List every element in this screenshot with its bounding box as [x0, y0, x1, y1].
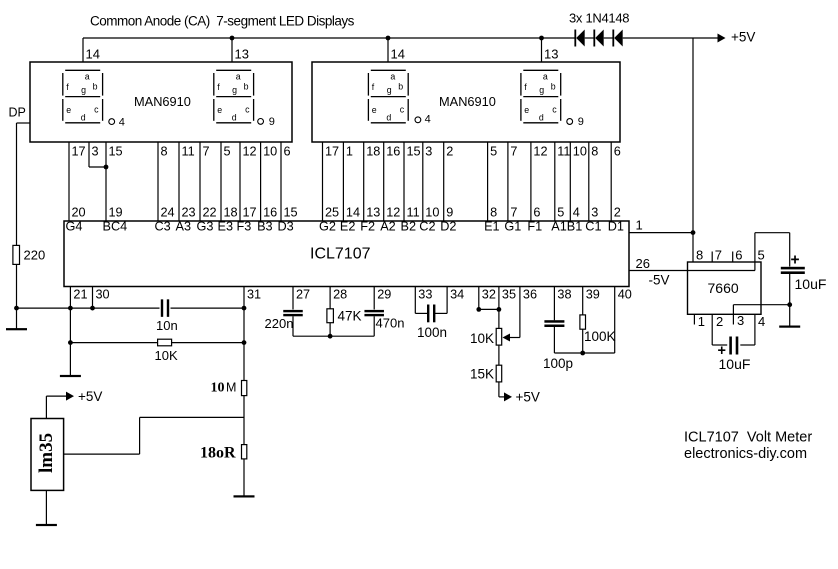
svg-text:2: 2 — [614, 206, 621, 220]
svg-text:35: 35 — [502, 288, 516, 302]
svg-text:5: 5 — [490, 144, 497, 158]
svg-text:electronics-diy.com: electronics-diy.com — [684, 446, 807, 462]
svg-text:+5V: +5V — [516, 390, 540, 405]
svg-text:4: 4 — [425, 113, 431, 125]
svg-text:7: 7 — [510, 144, 517, 158]
svg-text:c: c — [94, 105, 99, 115]
svg-text:26: 26 — [636, 256, 650, 271]
svg-text:14: 14 — [391, 47, 405, 62]
svg-text:27: 27 — [296, 288, 310, 302]
svg-text:10n: 10n — [156, 318, 178, 333]
svg-text:8: 8 — [591, 144, 598, 158]
svg-text:34: 34 — [450, 288, 464, 302]
svg-text:12: 12 — [533, 144, 547, 158]
svg-text:d: d — [232, 112, 237, 122]
svg-text:g: g — [539, 85, 544, 95]
svg-text:100K: 100K — [584, 329, 616, 344]
svg-text:g: g — [387, 85, 392, 95]
svg-text:10: 10 — [425, 206, 439, 220]
svg-text:220n: 220n — [265, 316, 294, 331]
svg-text:MAN6910: MAN6910 — [134, 94, 191, 109]
svg-text:36: 36 — [523, 288, 537, 302]
svg-text:d: d — [386, 112, 391, 122]
svg-text:9: 9 — [578, 116, 584, 128]
svg-text:15: 15 — [407, 144, 421, 158]
svg-text:10K: 10K — [155, 348, 178, 363]
svg-text:15: 15 — [109, 144, 123, 158]
svg-text:33: 33 — [418, 288, 432, 302]
svg-text:d: d — [81, 112, 86, 122]
svg-text:17: 17 — [243, 206, 257, 220]
svg-text:+: + — [791, 252, 800, 269]
svg-text:10uF: 10uF — [719, 356, 751, 372]
svg-text:10uF: 10uF — [795, 276, 827, 292]
svg-text:c: c — [245, 105, 250, 115]
svg-text:100n: 100n — [417, 325, 447, 340]
svg-text:13: 13 — [235, 47, 249, 62]
svg-text:16: 16 — [263, 206, 277, 220]
svg-text:b: b — [398, 82, 403, 92]
svg-text:11: 11 — [557, 144, 570, 158]
svg-text:8: 8 — [490, 206, 497, 220]
svg-text:13: 13 — [366, 206, 380, 220]
svg-text:g: g — [81, 85, 86, 95]
svg-text:a: a — [85, 71, 90, 81]
svg-text:7: 7 — [510, 206, 517, 220]
svg-text:14: 14 — [346, 206, 360, 220]
svg-text:+5V: +5V — [731, 30, 755, 45]
svg-text:12: 12 — [386, 206, 400, 220]
svg-text:b: b — [244, 82, 249, 92]
svg-text:6: 6 — [284, 144, 291, 158]
svg-text:18: 18 — [366, 144, 380, 158]
svg-text:4: 4 — [573, 206, 580, 220]
svg-text:9: 9 — [269, 116, 275, 128]
svg-text:7: 7 — [203, 144, 210, 158]
svg-text:3x 1N4148: 3x 1N4148 — [569, 11, 629, 26]
svg-text:2: 2 — [716, 314, 723, 329]
svg-text:4: 4 — [758, 314, 765, 329]
svg-text:8: 8 — [161, 144, 168, 158]
svg-text:9: 9 — [446, 206, 453, 220]
svg-text:c: c — [552, 105, 557, 115]
svg-text:32: 32 — [482, 288, 496, 302]
svg-text:10K: 10K — [470, 331, 494, 346]
svg-text:18oR: 18oR — [200, 445, 236, 462]
svg-text:a: a — [236, 71, 241, 81]
svg-text:e: e — [217, 105, 222, 115]
svg-text:g: g — [232, 85, 237, 95]
svg-text:11: 11 — [182, 144, 195, 158]
svg-text:8: 8 — [696, 248, 703, 263]
svg-text:24: 24 — [161, 206, 175, 220]
svg-text:ICL7107 Volt Meter: ICL7107 Volt Meter — [684, 430, 812, 446]
svg-text:lm35: lm35 — [36, 433, 57, 473]
svg-text:MAN6910: MAN6910 — [439, 94, 496, 109]
svg-text:10: 10 — [573, 144, 587, 158]
svg-text:15K: 15K — [470, 367, 494, 382]
svg-text:Common Anode (CA) 7-segment L: Common Anode (CA) 7-segment LED Displays — [90, 14, 355, 29]
svg-text:d: d — [539, 112, 544, 122]
svg-text:1: 1 — [346, 144, 353, 158]
svg-text:3: 3 — [591, 206, 598, 220]
svg-text:b: b — [551, 82, 556, 92]
svg-text:7: 7 — [715, 248, 722, 263]
svg-text:22: 22 — [203, 206, 217, 220]
svg-text:16: 16 — [386, 144, 400, 158]
svg-text:10M: 10M — [211, 381, 237, 396]
svg-text:15: 15 — [284, 206, 298, 220]
svg-text:47K: 47K — [338, 309, 362, 324]
svg-text:220: 220 — [24, 248, 46, 263]
svg-text:470n: 470n — [376, 316, 405, 331]
svg-text:+5V: +5V — [78, 389, 102, 404]
svg-text:14: 14 — [86, 47, 100, 62]
svg-text:40: 40 — [618, 288, 632, 302]
svg-text:17: 17 — [72, 144, 86, 158]
svg-text:30: 30 — [96, 288, 110, 302]
svg-text:a: a — [390, 71, 395, 81]
svg-text:6: 6 — [614, 144, 621, 158]
svg-text:ICL7107: ICL7107 — [310, 246, 371, 263]
svg-text:6: 6 — [735, 248, 742, 263]
svg-text:1: 1 — [698, 314, 705, 329]
svg-text:a: a — [543, 71, 548, 81]
svg-text:31: 31 — [247, 288, 261, 302]
svg-text:17: 17 — [325, 144, 339, 158]
svg-text:DP: DP — [9, 106, 26, 120]
svg-text:e: e — [524, 105, 529, 115]
svg-text:25: 25 — [325, 206, 339, 220]
svg-text:1: 1 — [636, 218, 643, 233]
svg-text:13: 13 — [544, 47, 558, 62]
svg-text:e: e — [66, 105, 71, 115]
svg-text:5: 5 — [224, 144, 231, 158]
svg-text:29: 29 — [377, 288, 391, 302]
svg-text:e: e — [372, 105, 377, 115]
svg-text:100p: 100p — [543, 356, 573, 371]
svg-text:b: b — [93, 82, 98, 92]
svg-text:5: 5 — [557, 206, 564, 220]
svg-text:3: 3 — [425, 144, 432, 158]
svg-text:19: 19 — [109, 206, 123, 220]
svg-text:39: 39 — [586, 288, 600, 302]
svg-text:12: 12 — [243, 144, 257, 158]
svg-text:2: 2 — [446, 144, 453, 158]
svg-text:6: 6 — [533, 206, 540, 220]
svg-text:c: c — [400, 105, 405, 115]
svg-text:20: 20 — [72, 206, 86, 220]
svg-text:-5V: -5V — [649, 273, 670, 288]
svg-text:5: 5 — [758, 248, 765, 263]
svg-text:21: 21 — [73, 288, 87, 302]
svg-text:10: 10 — [263, 144, 277, 158]
svg-text:4: 4 — [119, 117, 125, 129]
svg-text:7660: 7660 — [708, 280, 739, 296]
svg-text:18: 18 — [224, 206, 238, 220]
svg-text:11: 11 — [407, 206, 420, 220]
svg-text:38: 38 — [557, 288, 571, 302]
svg-text:23: 23 — [182, 206, 196, 220]
svg-text:28: 28 — [333, 288, 347, 302]
svg-text:3: 3 — [92, 144, 99, 158]
svg-text:3: 3 — [737, 313, 744, 328]
